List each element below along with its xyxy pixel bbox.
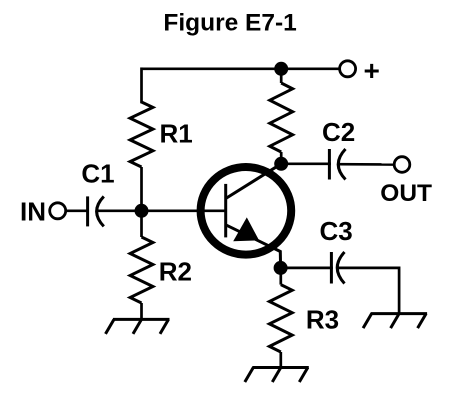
resistor R2: [130, 237, 153, 303]
node: rail junction: [274, 62, 288, 76]
wire: R2 to ground: [140, 303, 143, 319]
wire: collector lead: [226, 164, 282, 199]
wire: IN terminal to C1: [66, 209, 87, 212]
wire: emitter node to C3: [281, 267, 333, 270]
wire: emitter lead: [226, 225, 281, 268]
svg-text:R1: R1: [160, 118, 193, 148]
wire: V+ rail: [142, 67, 340, 70]
wire: R1 top: [140, 69, 143, 102]
wire: C3 to right ground: [338, 268, 400, 314]
resistor R3: [269, 285, 292, 352]
transistor Q1 circle: [201, 167, 292, 255]
transistor Q1 emitter arrow: [233, 217, 259, 241]
svg-text:C3: C3: [320, 216, 353, 246]
transistor Q1 base bar: [224, 184, 227, 238]
svg-text:C1: C1: [81, 159, 114, 189]
resistor R1: [130, 102, 153, 167]
capacitor C3: [331, 252, 344, 284]
capacitor C2: [329, 149, 345, 180]
wire: collector resistor to collector node: [280, 152, 283, 164]
ground (C3 return): [363, 314, 427, 329]
svg-text:C2: C2: [322, 117, 355, 147]
svg-text:R2: R2: [159, 256, 192, 286]
node: base junction: [135, 204, 149, 218]
svg-text:R3: R3: [306, 305, 339, 335]
resistor (collector load): [270, 83, 293, 152]
terminal V+ circle: [340, 61, 356, 77]
wire: R3 to ground: [279, 352, 282, 368]
wire: C1 to base: [97, 209, 226, 212]
wire: collector node to C2: [281, 162, 331, 165]
wire: emitter node to R3: [279, 268, 282, 285]
svg-text:OUT: OUT: [380, 180, 432, 207]
node: emitter junction: [274, 261, 288, 275]
svg-text:Figure E7-1: Figure E7-1: [163, 9, 296, 36]
svg-text:IN: IN: [20, 197, 46, 227]
terminal OUT circle: [394, 157, 410, 173]
capacitor C1: [88, 196, 104, 226]
wire: base node to R2: [140, 211, 143, 237]
wire: C2 to OUT terminal: [338, 163, 394, 166]
ground (R3): [245, 368, 309, 383]
wire: R1 to base node: [140, 167, 143, 211]
wire: rail to collector resistor: [280, 69, 283, 83]
node: collector junction: [274, 157, 288, 171]
svg-text:+: +: [364, 55, 380, 86]
terminal IN circle: [50, 203, 66, 219]
ground (R2): [106, 319, 170, 334]
